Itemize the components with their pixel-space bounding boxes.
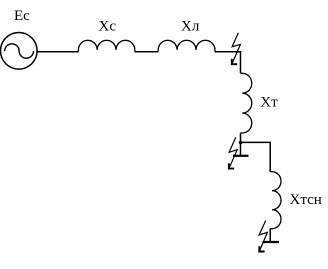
fault arrow K1 [232,33,241,64]
svg-text:Xтсн: Xтсн [290,192,322,208]
bus bar K3 [263,241,280,243]
svg-text:Ec: Ec [14,8,30,24]
svg-text:Xc: Xc [99,19,117,35]
AC source Ec [1,33,38,70]
wire Xl to corner, down to Xt [215,52,241,74]
wire Xc to Xl [135,51,158,53]
fault arrow K2 [229,137,237,168]
sine wave inside source [5,44,34,58]
inductor Xtsn [270,172,281,229]
fault arrow K3 [259,221,267,252]
svg-text:Xл: Xл [181,19,200,35]
junction node [239,141,243,145]
svg-text:Xт: Xт [260,95,278,111]
inductor Xc [78,40,134,52]
wire Xt to bus K2 [240,133,242,156]
wire source to Xc [37,51,78,53]
wire Xtsn to bus K3 [269,229,271,242]
bus bar K2 [233,155,249,157]
inductor Xl [158,40,215,52]
branch wire to Xtsn [241,142,271,171]
inductor Xt [241,73,252,133]
